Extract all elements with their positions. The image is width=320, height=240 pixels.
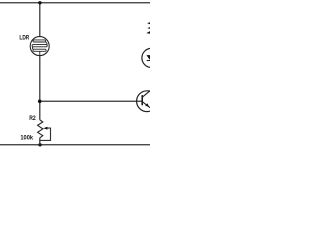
LED cathode bar — [147, 60, 152, 62]
resistor R1 clipped arrow vertex 3 — [146, 31, 151, 34]
svg-text:100k: 100k — [20, 135, 33, 142]
wire bottom rail — [0, 144, 150, 146]
resistor R1 clipped zigzag vertex 2 — [147, 27, 151, 30]
wire transistor base wire — [40, 100, 142, 102]
transistor emitter arrow — [145, 103, 149, 107]
node mid junction — [38, 100, 42, 104]
LED D1 circle (clipped at right edge) — [142, 48, 161, 67]
LDR body circle — [30, 37, 49, 56]
svg-text:LDR: LDR — [19, 35, 29, 42]
transistor Q1 body circle (clipped at right) — [137, 91, 158, 112]
transistor emitter line — [142, 102, 150, 109]
wire LDR top lead — [39, 3, 41, 37]
resistor R1 clipped zigzag vertex 1 — [147, 22, 151, 25]
LDR serpentine track — [32, 40, 47, 56]
svg-text:R2: R2 — [29, 115, 36, 122]
transistor base bar — [141, 95, 143, 105]
wire wiper tail and loop — [40, 128, 51, 140]
transistor collector line — [142, 90, 151, 97]
resistor R2 zigzag (rheostat) — [38, 120, 43, 138]
LED triangle — [146, 55, 153, 60]
node top junction — [38, 1, 41, 4]
rheostat wiper arrow head — [43, 127, 47, 130]
node bottom junction — [38, 143, 41, 146]
wire top rail — [0, 2, 150, 4]
wire LDR bottom lead down to rheostat — [39, 56, 41, 120]
wire rheostat bottom lead — [39, 138, 41, 145]
